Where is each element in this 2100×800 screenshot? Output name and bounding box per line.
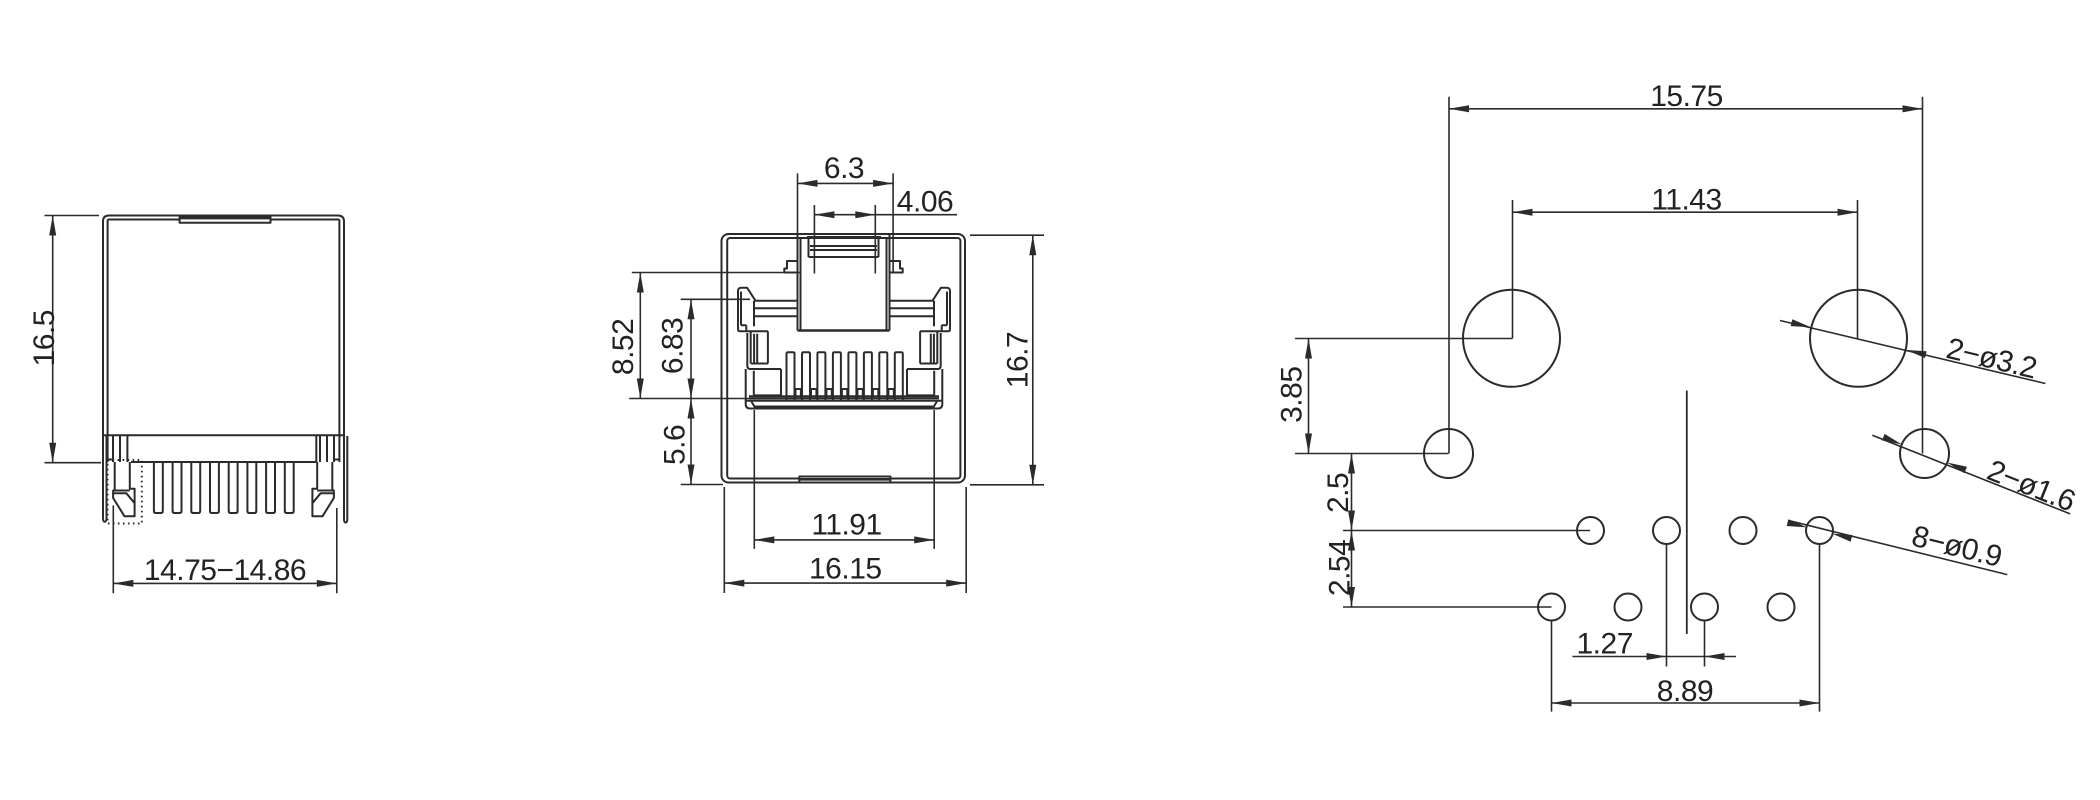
front view body outer [722, 234, 966, 483]
side view left latch foot [113, 462, 135, 516]
dimension 16.15 [724, 487, 966, 593]
side view flange verticals left [108, 435, 128, 462]
svg-text:14.75−14.86: 14.75−14.86 [144, 554, 306, 587]
svg-text:5.6: 5.6 [659, 425, 692, 465]
side view hidden outline (dotted box) [108, 460, 142, 524]
svg-text:15.75: 15.75 [1650, 80, 1723, 113]
side view inner wall lines [108, 220, 340, 463]
side view flange bottom edge [131, 461, 316, 463]
side view top notch [180, 216, 271, 223]
svg-text:2.54: 2.54 [1324, 540, 1357, 596]
dimension 11.43 [1513, 200, 1858, 339]
boss hole right (Ø1.6) [1900, 429, 1949, 478]
front view cavity bottom [746, 369, 943, 409]
svg-text:3.85: 3.85 [1276, 367, 1309, 423]
pin extension lines [1552, 544, 1820, 712]
svg-text:6.3: 6.3 [824, 152, 864, 185]
front view latch slot [798, 235, 890, 331]
dimension 15.75 [1449, 97, 1923, 454]
front view latch slot flare [784, 261, 902, 273]
side view pins [154, 462, 163, 513]
front view plug cavity block bottom [798, 329, 890, 332]
pin holes upper row (Ø0.9) [1577, 517, 1604, 544]
front view left ear [738, 291, 768, 331]
leader 2-Ø3.2 [1780, 321, 2045, 384]
svg-text:11.91: 11.91 [811, 509, 881, 542]
front view rear contact stubs [796, 389, 894, 398]
svg-text:16.15: 16.15 [809, 553, 882, 586]
dimension 6.3 [798, 173, 894, 273]
side view left shell leg [103, 436, 107, 522]
side view right shell leg [344, 436, 347, 523]
dimension 5.6 [681, 399, 723, 485]
dimension 11.91 [754, 410, 934, 549]
front view bottom notch [799, 477, 890, 483]
dimension 3.85 [1295, 339, 1513, 454]
side view flange seam [103, 434, 344, 436]
mounting hole left (Ø3.2) [1463, 290, 1560, 387]
svg-text:16.7: 16.7 [1002, 332, 1035, 388]
side view right latch foot [312, 462, 334, 516]
dimension 16.7 [970, 235, 1044, 485]
svg-text:6.83: 6.83 [657, 318, 690, 374]
svg-text:2−ø3.2: 2−ø3.2 [1943, 332, 2039, 385]
leader 2-Ø1.6 [1872, 435, 2070, 514]
dimension 2.5 [1343, 454, 1590, 531]
svg-text:8.89: 8.89 [1657, 675, 1713, 708]
svg-text:11.43: 11.43 [1651, 184, 1721, 217]
side view flange verticals right [316, 435, 339, 462]
footprint centerline [1686, 391, 1688, 635]
svg-text:8.52: 8.52 [607, 319, 640, 375]
front view body inner [727, 238, 960, 479]
dimension 8.89 [1552, 702, 1820, 704]
front view left lower wall and pocket [747, 333, 781, 395]
svg-text:1.27: 1.27 [1577, 628, 1633, 661]
front view right lower wall and pocket [907, 333, 941, 395]
mounting hole right (Ø3.2) [1810, 290, 1907, 387]
front view contact shelf lines [749, 396, 939, 398]
dimension 4.06 [814, 205, 957, 274]
svg-text:16.5: 16.5 [28, 310, 61, 366]
side view body outline [103, 216, 344, 520]
dimension 8.52 [629, 273, 801, 399]
pin holes lower row (Ø0.9) [1538, 594, 1565, 621]
front view right shoulder [890, 288, 951, 327]
dimension 14.75-14.86 [113, 505, 336, 593]
dimension 2.54 [1343, 531, 1552, 608]
front view left tab [751, 331, 768, 363]
dimension 1.27 [1572, 656, 1736, 658]
svg-text:2.5: 2.5 [1322, 473, 1355, 513]
svg-text:8−ø0.9: 8−ø0.9 [1908, 520, 2004, 574]
leader 8-Ø0.9 [1789, 521, 2007, 575]
dimension 16.5 [45, 216, 102, 463]
front view left shoulder [738, 288, 798, 327]
front view contact fingers [787, 352, 795, 401]
front view right tab [920, 331, 937, 363]
svg-text:2−ø1.6: 2−ø1.6 [1983, 454, 2080, 518]
dimension 6.83 [681, 299, 750, 398]
svg-text:4.06: 4.06 [897, 186, 953, 219]
boss hole left (Ø1.6) [1424, 429, 1473, 478]
front view right ear [920, 291, 950, 331]
